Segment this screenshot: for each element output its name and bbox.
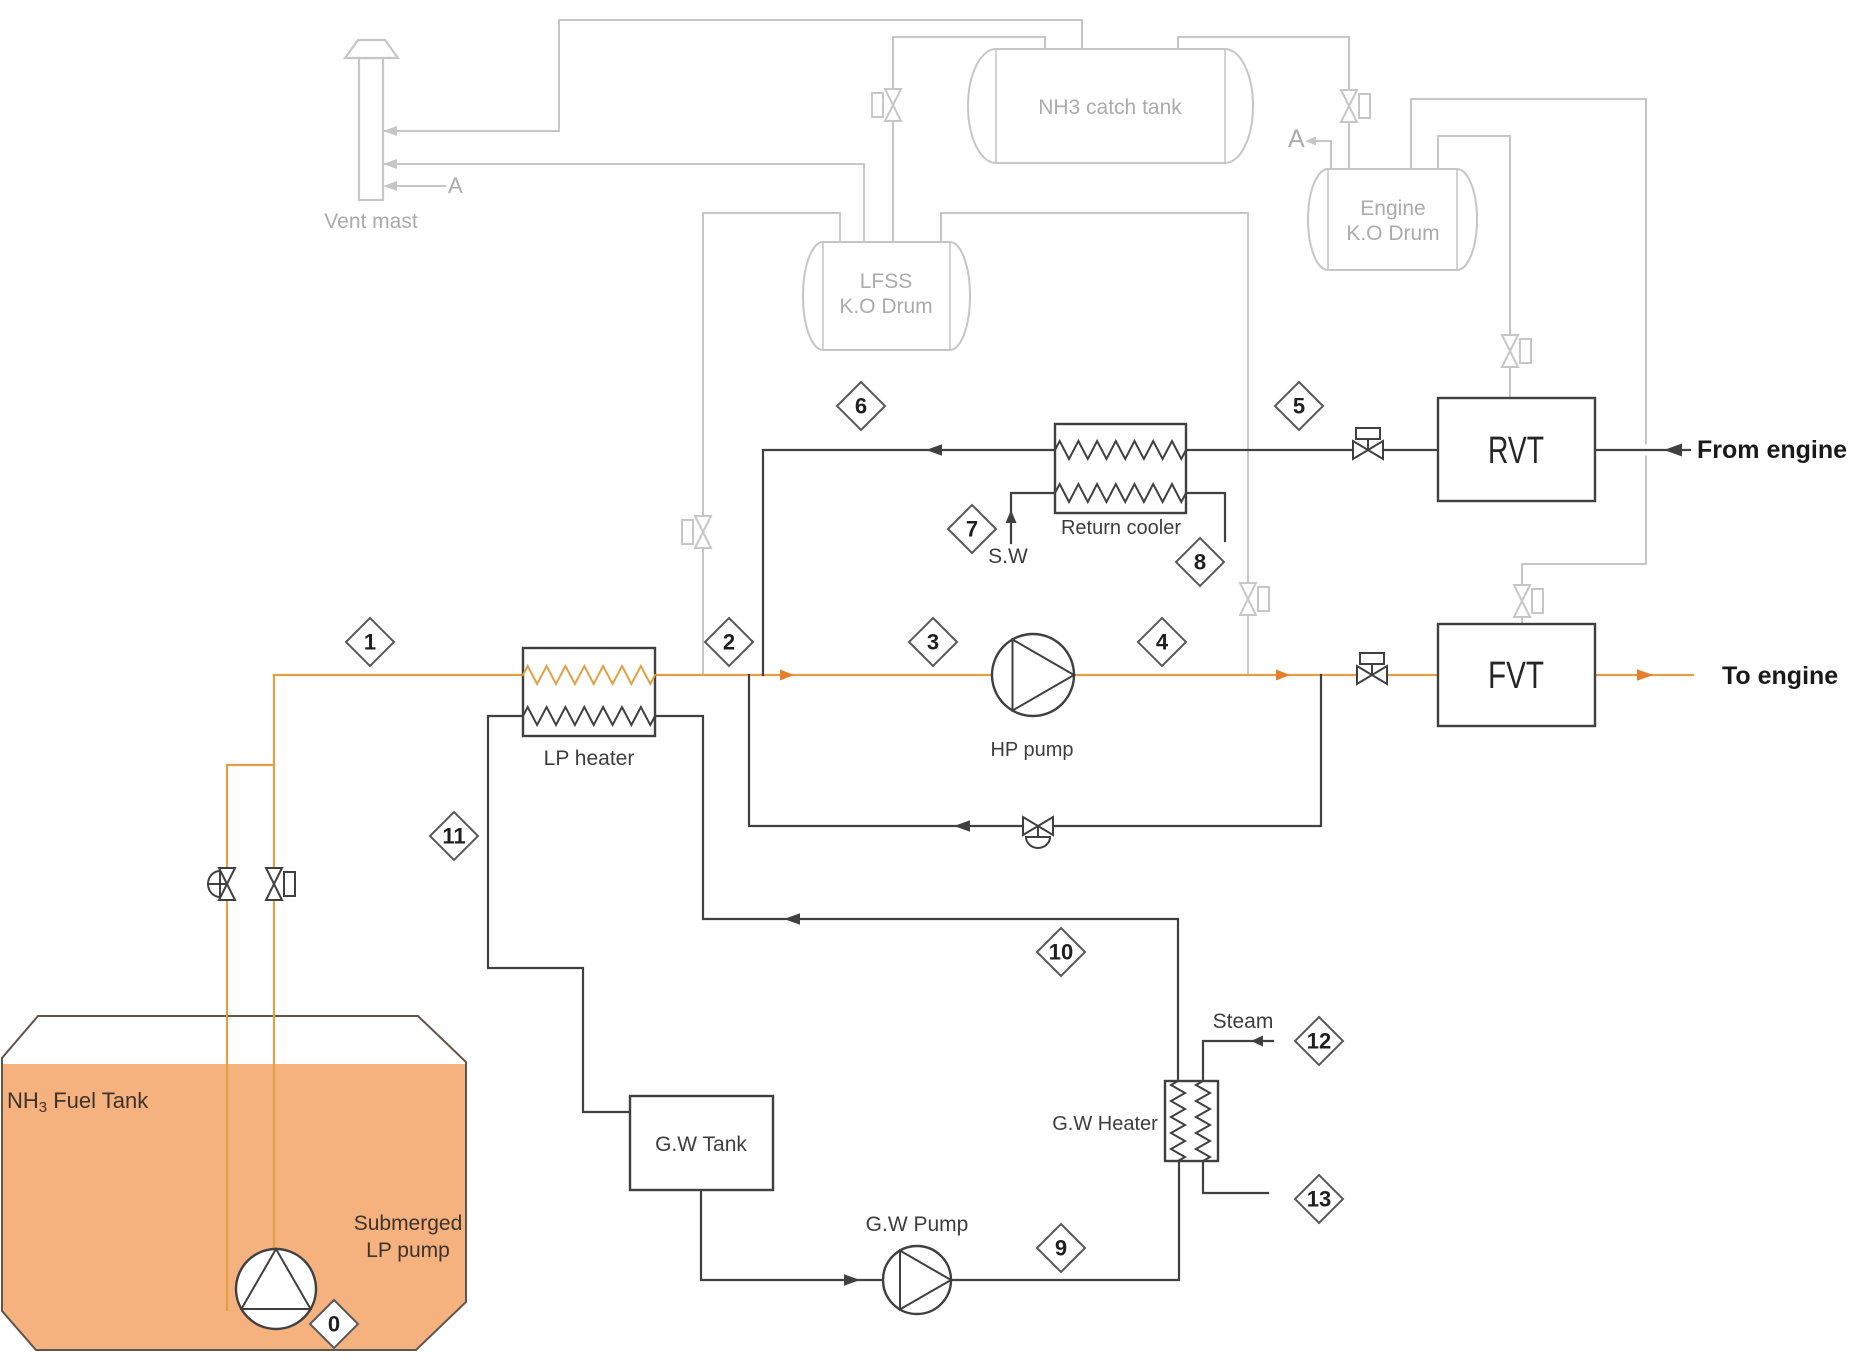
label: LP heater <box>544 747 635 770</box>
valve on Engine K.O drum inlet <box>1341 90 1370 122</box>
wire: condensate outlet line 13 <box>1203 1161 1268 1193</box>
svg-text:Engine: Engine <box>1360 197 1425 220</box>
wire: connector A stub into vent mast <box>390 185 445 187</box>
valve on fill line <box>208 868 235 900</box>
flow arrow on FVT outlet <box>1637 669 1653 681</box>
valve above RVT <box>1502 335 1531 367</box>
wire: HP pump bypass line <box>749 675 1321 826</box>
svg-text:G.W Tank: G.W Tank <box>655 1133 747 1156</box>
wire: NH3 catch tank to Engine K.O drum line <box>1178 37 1349 169</box>
flow arrow on S.W line <box>1006 510 1017 523</box>
wire: S.W outlet from return cooler <box>1186 493 1225 541</box>
arrow into vent mast (connector A) <box>383 181 397 191</box>
node 9 (stream diamond) <box>1037 1224 1085 1272</box>
svg-text:From engine: From engine <box>1697 436 1847 464</box>
valve on FVT inlet <box>1357 653 1387 684</box>
node 13 (stream diamond) <box>1295 1175 1343 1223</box>
flow arrow on fuel line after node 2 <box>780 670 794 681</box>
node 12 (stream diamond) <box>1295 1017 1343 1065</box>
node 10 (stream diamond) <box>1037 928 1085 976</box>
arrow on connector A (engine drum) <box>1305 137 1316 146</box>
label: NH3 Fuel Tank <box>7 1088 149 1116</box>
wire: LP heater glycol outlet to G.W tank <box>488 716 630 1112</box>
wire: vent line from LFSS K.O drum to vent mast <box>382 164 864 242</box>
svg-text:1: 1 <box>364 630 376 655</box>
node A (at vent mast) <box>448 173 463 198</box>
wire: main fuel line tank to LP heater (orange) <box>274 674 523 676</box>
unit: FVT <box>1438 624 1595 726</box>
flow arrow on from-engine line <box>1664 444 1682 457</box>
svg-text:6: 6 <box>855 394 867 419</box>
label: G.W Heater <box>1052 1113 1158 1135</box>
wire: vent line from NH3 catch tank to vent mast <box>382 20 1082 131</box>
svg-text:To engine: To engine <box>1722 662 1838 690</box>
node 6 (stream diamond) <box>837 382 885 430</box>
node A (engine K.O drum) <box>1288 125 1305 153</box>
wire: from engine line to RVT <box>1595 445 1690 456</box>
vessel: LFSS K.O Drum <box>803 242 970 350</box>
node 1 (stream diamond) <box>346 618 394 666</box>
wire: steam inlet to G.W heater <box>1203 1041 1273 1081</box>
arrow into vent mast (middle) <box>383 159 397 169</box>
svg-text:A: A <box>1288 125 1305 153</box>
svg-text:11: 11 <box>442 824 465 849</box>
svg-text:G.W Pump: G.W Pump <box>866 1213 969 1236</box>
svg-text:7: 7 <box>966 517 978 542</box>
NH3 Fuel Tank (octagonal, liquid filled) <box>2 1016 466 1350</box>
valve above FVT <box>1514 585 1543 617</box>
wire: recirculation line from return cooler to fuel line <box>763 450 1055 675</box>
wire: tank fill line (orange) <box>227 765 274 1310</box>
label: To engine <box>1722 662 1838 690</box>
pump: G.W Pump <box>883 1246 951 1314</box>
svg-text:Vent mast: Vent mast <box>324 210 418 233</box>
node 8 (stream diamond) <box>1176 538 1224 586</box>
label: Submerged LP pump <box>354 1212 463 1262</box>
wire: LP pump suction riser (orange) <box>273 675 275 1249</box>
label: Vent mast <box>324 210 418 233</box>
flow arrow into G.W pump <box>844 1274 860 1286</box>
unit: G.W Tank <box>630 1096 773 1190</box>
flow arrow on line 10 <box>784 913 800 925</box>
svg-text:S.W: S.W <box>988 545 1028 568</box>
wire: RVT to return cooler <box>1186 449 1438 451</box>
wire: G.W tank to G.W pump <box>701 1190 883 1280</box>
label: HP pump <box>990 739 1073 761</box>
label: Return cooler <box>1061 517 1181 539</box>
vessel: Engine K.O Drum <box>1308 169 1477 270</box>
node 0 (stream diamond) <box>310 1300 358 1348</box>
wire: Engine K.O drum vapour return down right side <box>1411 99 1646 564</box>
label: G.W Pump <box>866 1213 969 1236</box>
flow arrow on steam line <box>1251 1036 1263 1047</box>
wire: LFSS K.O drum vent riser to NH3 catch tank <box>893 37 1045 242</box>
wire: main fuel line LP heater to FVT (orange) <box>655 674 1438 676</box>
valve on suction riser <box>266 868 295 900</box>
node 11 (stream diamond) <box>430 812 478 860</box>
arrow into vent mast (top) <box>383 126 397 136</box>
heat exchanger: LP heater <box>523 648 655 736</box>
svg-text:RVT: RVT <box>1488 430 1544 472</box>
wire: LFSS K.O drum right line down to FVT feed line <box>941 213 1248 675</box>
svg-text:12: 12 <box>1307 1029 1331 1054</box>
svg-text:HP pump: HP pump <box>990 739 1073 761</box>
pump: HP pump <box>992 634 1074 716</box>
label: S.W <box>988 545 1028 568</box>
flow arrow on fuel line after node 4 <box>1276 670 1290 681</box>
wire: Engine K.O drum line to RVT top <box>1438 136 1510 398</box>
vent mast <box>345 40 398 200</box>
svg-text:NH3 Fuel Tank: NH3 Fuel Tank <box>7 1088 149 1116</box>
pump: submerged LP pump <box>236 1249 316 1329</box>
svg-text:4: 4 <box>1156 630 1169 655</box>
svg-text:LFSS: LFSS <box>860 270 913 293</box>
svg-text:10: 10 <box>1049 940 1073 965</box>
svg-text:K.O Drum: K.O Drum <box>839 295 932 318</box>
unit: RVT <box>1438 398 1595 501</box>
flow arrow on recirculation line <box>926 444 942 456</box>
wire: LFSS K.O drum left line down to fuel line <box>703 213 840 675</box>
wire: G.W pump to G.W heater <box>951 1161 1179 1280</box>
wire: G.W heater to LP heater (line 10) <box>655 716 1178 1081</box>
node 2 (stream diamond) <box>705 618 753 666</box>
svg-text:Submerged: Submerged <box>354 1212 463 1235</box>
svg-text:A: A <box>448 173 463 198</box>
heat exchanger: G.W Heater <box>1165 1081 1218 1161</box>
svg-text:FVT: FVT <box>1488 655 1544 697</box>
svg-text:LP heater: LP heater <box>544 747 635 770</box>
node 7 (stream diamond) <box>948 505 996 553</box>
svg-text:Steam: Steam <box>1213 1010 1274 1033</box>
wire: S.W inlet to return cooler <box>1011 493 1055 543</box>
valve on LFSS left drop line <box>682 516 711 548</box>
control valve on RVT outlet <box>1353 428 1383 459</box>
node 5 (stream diamond) <box>1275 382 1323 430</box>
svg-text:0: 0 <box>328 1312 340 1337</box>
svg-text:G.W Heater: G.W Heater <box>1052 1113 1158 1135</box>
label: Steam <box>1213 1010 1274 1033</box>
valve on LFSS right drop line <box>1240 583 1269 615</box>
svg-text:5: 5 <box>1293 394 1305 419</box>
svg-text:9: 9 <box>1055 1236 1067 1261</box>
valve on LFSS vent riser <box>872 89 901 121</box>
wire: gray drop line to FVT top <box>1522 564 1646 624</box>
svg-text:LP pump: LP pump <box>366 1239 450 1262</box>
svg-text:Return cooler: Return cooler <box>1061 517 1181 539</box>
svg-text:3: 3 <box>927 630 939 655</box>
svg-text:NH3 catch tank: NH3 catch tank <box>1038 96 1182 119</box>
svg-text:8: 8 <box>1194 550 1206 575</box>
flow arrow on bypass line <box>954 820 970 832</box>
heat exchanger: Return cooler <box>1055 424 1186 513</box>
svg-text:K.O Drum: K.O Drum <box>1346 222 1439 245</box>
vessel: NH3 catch tank <box>968 49 1253 163</box>
wire: connector A stub from Engine K.O drum <box>1313 141 1331 169</box>
svg-text:2: 2 <box>723 630 735 655</box>
wire: FVT outlet to engine (orange) <box>1595 674 1693 676</box>
svg-text:13: 13 <box>1307 1187 1331 1212</box>
control valve on bypass line <box>1023 817 1053 848</box>
label: From engine <box>1697 436 1847 464</box>
node 4 (stream diamond) <box>1138 618 1186 666</box>
node 3 (stream diamond) <box>909 618 957 666</box>
